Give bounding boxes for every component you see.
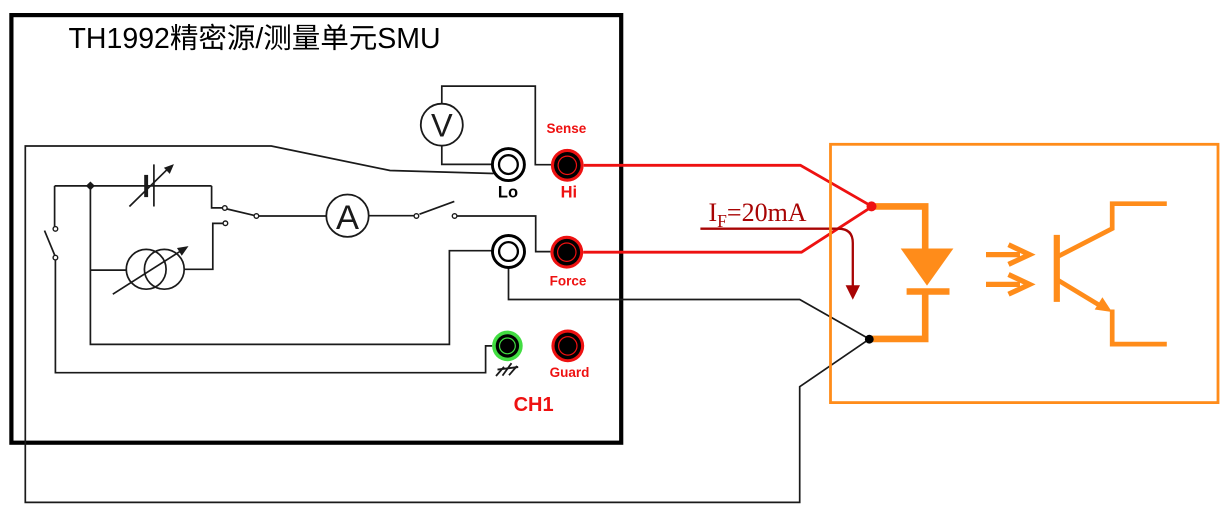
light emission arrow 2 bbox=[986, 282, 1020, 287]
light emission arrow 1 bbox=[986, 252, 1020, 257]
LED cathode wire (orange) bbox=[872, 292, 926, 339]
terminal Lo (binding post) bbox=[492, 149, 524, 181]
wire ammeter to switch S3 bbox=[369, 215, 414, 217]
LED D1 triangle bbox=[901, 249, 954, 286]
wire current source right lead to switch S2 lower contact bbox=[184, 223, 223, 269]
switch S1 blade bbox=[45, 231, 55, 256]
wire left switch branch down bbox=[54, 186, 56, 227]
switch S3 blade (open) bbox=[420, 201, 455, 214]
wire Force to DUT anode (red) bbox=[583, 208, 870, 252]
svg-text:Lo: Lo bbox=[498, 183, 518, 201]
svg-text:A: A bbox=[336, 199, 359, 237]
terminal Hi (red binding post) bbox=[551, 149, 584, 182]
svg-text:CH1: CH1 bbox=[514, 394, 554, 416]
phototransistor Q1 collector bbox=[1058, 204, 1167, 257]
wire capacitor branch to switch S2 upper contact bbox=[212, 186, 223, 208]
wire S1 to guard ground rail bbox=[55, 260, 492, 373]
wire Hi to DUT anode (red) bbox=[584, 165, 870, 205]
LED anode wire (orange) bbox=[872, 206, 926, 249]
node DUT cathode (black dot) bbox=[865, 335, 874, 344]
switch S3 left contact bbox=[414, 214, 419, 219]
variable current source I1 circle left bbox=[126, 249, 166, 289]
svg-text:Sense: Sense bbox=[547, 121, 587, 136]
LED D1 cathode bar bbox=[907, 288, 950, 295]
switch S3 right contact bbox=[452, 214, 457, 219]
switch S2 blade bbox=[227, 209, 254, 215]
svg-text:Force: Force bbox=[550, 274, 587, 289]
wire Force-low terminal to output low node bbox=[509, 268, 867, 338]
wire S3 to Force terminal bbox=[457, 216, 551, 252]
variable capacitor C1 arrow bbox=[129, 168, 168, 206]
terminal Force-low (binding post) bbox=[493, 236, 525, 268]
wire internal top bus through variable capacitor bbox=[55, 185, 212, 187]
variable capacitor C1 left plate bbox=[144, 175, 148, 197]
ammeter A bbox=[326, 195, 368, 237]
terminal ground (green binding post) bbox=[492, 331, 523, 362]
phototransistor Q1 base bar bbox=[1054, 235, 1060, 302]
svg-text:TH1992: TH1992 bbox=[69, 23, 170, 55]
svg-text:Guard: Guard bbox=[550, 365, 590, 380]
phototransistor Q1 emitter with arrow bbox=[1058, 280, 1105, 308]
wire current source left lead bbox=[90, 269, 126, 271]
variable current source I1 circle right bbox=[144, 249, 184, 289]
terminal Force (red binding post) bbox=[550, 236, 583, 269]
switch S2 upper contact bbox=[223, 206, 228, 211]
switch S1 contact bottom bbox=[53, 255, 58, 260]
svg-text:V: V bbox=[431, 108, 453, 144]
node DUT anode (red dot) bbox=[867, 201, 877, 211]
svg-text:SMU: SMU bbox=[377, 23, 440, 55]
wire voltmeter bottom to Lo bbox=[442, 146, 493, 165]
chassis ground symbol bbox=[498, 367, 519, 370]
variable capacitor C1 right plate bbox=[153, 164, 155, 206]
voltmeter V bbox=[421, 104, 463, 146]
wire voltmeter top to Sense/Hi node bbox=[442, 86, 551, 165]
terminal Guard (red binding post) bbox=[551, 330, 584, 363]
switch S2 right contact bbox=[254, 214, 259, 219]
svg-text:/: / bbox=[255, 23, 263, 55]
variable current source I1 arrow bbox=[113, 251, 181, 294]
DUT optocoupler box bbox=[831, 144, 1219, 402]
SMU instrument box TH1992 bbox=[11, 15, 621, 443]
wire Lo to outer loop (left/bottom) to output low node bbox=[25, 146, 866, 502]
wire junction column to Force-low node bbox=[90, 186, 494, 345]
wire S2 to ammeter bbox=[259, 215, 327, 217]
svg-text:IF=20mA: IF=20mA bbox=[709, 198, 807, 231]
switch S2 lower contact bbox=[223, 221, 228, 226]
switch S1 contact top bbox=[53, 227, 58, 232]
current direction arrow IF bbox=[700, 229, 852, 288]
svg-text:Hi: Hi bbox=[561, 183, 578, 201]
node junction dot bbox=[86, 182, 95, 191]
